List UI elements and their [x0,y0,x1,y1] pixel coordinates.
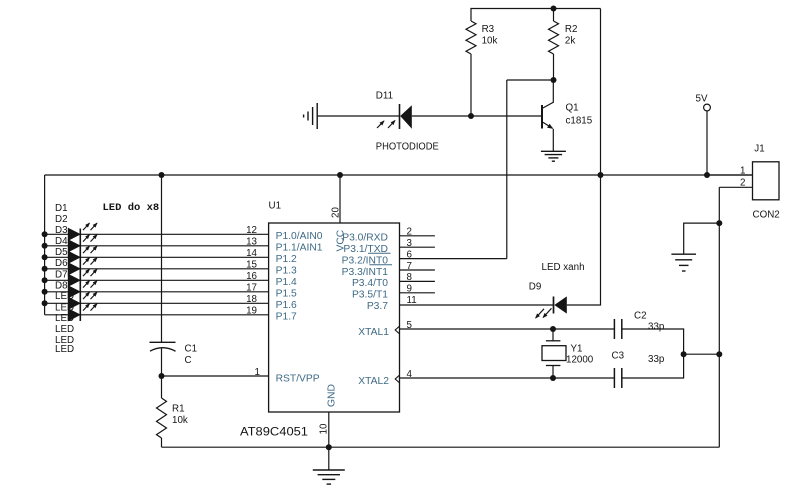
wire pin 2 stub [400,235,435,237]
svg-text:LED: LED [55,313,74,324]
wire from main rail down to LED D9 cathode [567,175,601,305]
transistor Q1 c1815 [542,80,553,151]
photodiode D11 [377,104,412,129]
svg-text:D7: D7 [55,269,68,280]
wire LED feed vertical line [44,175,46,315]
wire CON2 pin 2 vertical to bottom rail [718,187,720,447]
wire photodiode ground to D11 cathode [318,115,400,117]
svg-text:XTAL1: XTAL1 [358,327,389,338]
wire LED row 5 to pin 16 [45,279,269,281]
wire XTAL2 pin 4 row [400,377,615,379]
wire crystal Y1 bottom stem [552,366,554,379]
svg-text:R3: R3 [482,24,495,35]
wire C2/C3 common junction to right vertical [684,353,720,355]
wire C3 right side to common junction [622,354,684,378]
svg-text:10: 10 [319,423,330,434]
svg-text:P1.3: P1.3 [276,265,297,276]
junction crystal top on XTAL1 [550,326,556,332]
wire CON2 pin 2 horizontal [719,186,752,188]
junction C2/C3 common [681,351,687,357]
svg-text:D2: D2 [55,214,68,225]
wire LED row 6 to pin 17 [45,291,269,293]
svg-text:17: 17 [246,283,257,294]
junction Q1 collector [551,77,557,83]
svg-text:10k: 10k [172,415,188,426]
capacitor C1 (electrolytic) [150,342,176,351]
wire pin 8 stub [400,280,435,282]
LED D6 symbol [68,281,97,298]
wire LED row 1 to pin 12 [45,233,269,235]
svg-text:D3: D3 [55,225,68,236]
svg-text:LED: LED [55,291,74,302]
wire R3 bottom stem [470,54,472,116]
LED D3 symbol [68,246,97,263]
wire R2 bottom stem [553,54,555,80]
wire pin 9 stub [400,292,435,294]
svg-text:AT89C4051: AT89C4051 [240,425,308,439]
svg-text:16: 16 [246,271,257,282]
svg-text:4: 4 [407,369,413,380]
wire GND pin 10 stem [328,412,330,447]
svg-text:J1: J1 [754,144,764,155]
svg-text:P1.4: P1.4 [276,277,297,288]
ground (CON2 pin 2 net) [671,253,696,255]
svg-text:P3.4/T0: P3.4/T0 [352,278,388,289]
wire main 5V horizontal rail [45,174,753,176]
svg-text:R2: R2 [565,24,578,35]
svg-text:11: 11 [407,295,417,306]
svg-text:P1.7: P1.7 [276,311,297,322]
junction LED feed row 3 [42,254,48,260]
svg-text:D11: D11 [376,91,393,102]
resistor R3 10k [466,21,476,54]
svg-text:PHOTODIODE: PHOTODIODE [376,142,439,153]
svg-text:VCC: VCC [336,229,347,251]
svg-text:LED: LED [55,344,74,355]
svg-text:C1: C1 [185,344,198,355]
LED D9 (LED xanh) [536,296,567,318]
svg-text:15: 15 [246,260,257,271]
svg-text:LED: LED [55,324,74,335]
svg-text:33p: 33p [648,322,665,333]
resistor R2 2k [549,21,559,54]
svg-text:33p: 33p [648,354,665,365]
wire top rail between R3 and R2 tops [470,8,600,10]
junction LED feed row 1 [42,231,48,237]
svg-text:P1.6: P1.6 [276,300,297,311]
capacitor C3 33p [614,368,621,388]
svg-text:Q1: Q1 [566,103,579,114]
svg-text:20: 20 [331,207,342,218]
svg-text:3: 3 [407,238,413,249]
junction common on right vertical [716,351,722,357]
svg-text:1: 1 [255,367,260,378]
svg-text:RST/VPP: RST/VPP [276,373,320,384]
wire bottom ground rail [162,446,720,448]
wire collector node horizontal [507,79,554,81]
svg-text:7: 7 [407,261,412,272]
svg-text:6: 6 [407,249,413,260]
wire R3 top stem [470,9,472,22]
wire vertical collector node down to pin 6 [506,80,508,259]
wire stem to chassis ground [328,447,330,470]
svg-text:P1.0/AIN0: P1.0/AIN0 [276,231,323,242]
wire pin 11 P3.7 to D9 anode [400,304,554,306]
crystal Y1 12000 [542,341,566,366]
wire R1 bottom stem [161,438,163,447]
svg-text:P3.0/RXD: P3.0/RXD [342,233,388,244]
wire R1 top stem [161,376,163,398]
overbar INT0 [370,264,393,266]
svg-text:1: 1 [740,166,745,177]
wire crystal Y1 top stem [552,329,554,341]
svg-text:5V: 5V [696,94,708,105]
wire C1 upper branch [161,175,163,342]
capacitor C2 33p [614,319,621,339]
junction GND pin on bottom rail [326,444,332,450]
LED D1 symbol [68,223,97,240]
svg-text:D5: D5 [55,247,68,258]
connector J1 CON2 body [753,162,780,200]
junction LED feed row 4 [42,266,48,272]
svg-text:D4: D4 [55,236,68,247]
5V power symbol [704,104,711,111]
ground (Q1 emitter) [541,150,566,152]
wire XTAL1 pin 5 row [400,328,615,330]
XTAL1 clock marker [395,326,399,334]
svg-text:13: 13 [246,237,257,248]
IC U1 AT89C4051 body [269,223,400,412]
wire C2 right side to common junction [622,329,684,354]
svg-text:R1: R1 [172,404,185,415]
svg-text:D6: D6 [55,258,68,269]
svg-text:P1.5: P1.5 [276,288,297,299]
wire right vertical from top rail down to main rail [600,9,602,176]
junction LED feed row 7 [42,300,48,306]
wire pin 7 stub [400,269,435,271]
svg-text:C: C [185,355,192,366]
wire LED row 3 to pin 14 [45,256,269,258]
svg-text:XTAL2: XTAL2 [358,376,389,387]
junction VCC stem on rail [337,172,343,178]
junction D9 riser on rail [598,172,604,178]
svg-text:19: 19 [246,306,257,317]
junction LED feed row 2 [42,243,48,249]
svg-text:GND: GND [327,384,338,407]
wire LED row 7 to pin 18 [45,302,269,304]
svg-text:8: 8 [407,272,413,283]
svg-text:CON2: CON2 [753,210,780,221]
svg-text:P1.2: P1.2 [276,254,297,265]
wire pin 6 P3.2/INT0 row [400,258,507,260]
junction LED feed row 5 [42,277,48,283]
junction CON2 pin 2 / ground branch [716,220,722,226]
LED D8 symbol [68,304,97,321]
ground (photodiode, rotated left-facing) [304,103,318,129]
svg-text:2: 2 [740,177,745,188]
svg-text:P1.1/AIN1: P1.1/AIN1 [276,242,323,253]
wire C1 lower branch [161,348,163,376]
wire VCC pin 20 stem [339,175,341,223]
svg-text:P3.3/INT1: P3.3/INT1 [342,267,389,278]
svg-text:9: 9 [407,284,412,295]
svg-text:c1815: c1815 [566,116,593,127]
svg-text:5: 5 [407,320,413,331]
svg-text:P3.7: P3.7 [367,301,388,312]
svg-text:LED: LED [55,302,74,313]
junction R2 top [551,6,557,12]
svg-text:14: 14 [246,248,257,259]
resistor R1 10k [157,398,167,438]
svg-text:D8: D8 [55,280,68,291]
wire RST net to pin 1 [162,375,269,377]
svg-text:U1: U1 [269,201,282,212]
ground (GND pin 10) [313,469,345,471]
svg-text:2k: 2k [565,36,575,47]
XTAL2 clock marker [395,375,399,383]
wire 5V stem [706,111,708,175]
junction 5V stem on rail [704,172,710,178]
wire D11 anode to R3 bottom and Q1 base [412,115,542,117]
wire CON2 pin 1 [707,174,753,176]
junction R3 bottom / D11 anode [468,113,474,119]
junction LED feed row 6 [42,289,48,295]
junction crystal bottom on XTAL2 [550,375,556,381]
LED D7 symbol [68,292,97,309]
svg-text:2: 2 [407,227,412,238]
wire LED row 2 to pin 13 [45,245,269,247]
LED D4 symbol [68,258,97,275]
svg-text:LED do x8: LED do x8 [103,202,160,214]
wire pin 3 stub [400,246,435,248]
LED bank cathode bar (merged) [79,229,81,322]
svg-text:12: 12 [246,225,257,236]
svg-text:P3.5/T1: P3.5/T1 [352,290,388,301]
junction RST/C1/R1 [159,373,165,379]
svg-text:C3: C3 [612,351,625,362]
svg-text:Y1: Y1 [571,344,583,355]
svg-text:10k: 10k [482,36,498,47]
svg-text:LED xanh: LED xanh [542,262,585,273]
svg-text:18: 18 [246,294,257,305]
junction C1 branch on rail [159,172,165,178]
svg-text:12000: 12000 [566,355,594,366]
overbar TXD [368,252,391,254]
svg-text:C2: C2 [634,311,647,322]
wire R2 top stem [553,9,555,22]
wire ground branch from pin 2 net [684,223,720,253]
svg-text:D1: D1 [55,203,68,214]
LED D2 symbol [68,235,97,252]
LED D5 symbol [68,269,97,286]
wire LED row 4 to pin 15 [45,268,269,270]
svg-text:D9: D9 [529,282,542,293]
wire LED row 8 to pin 19 [45,314,269,316]
